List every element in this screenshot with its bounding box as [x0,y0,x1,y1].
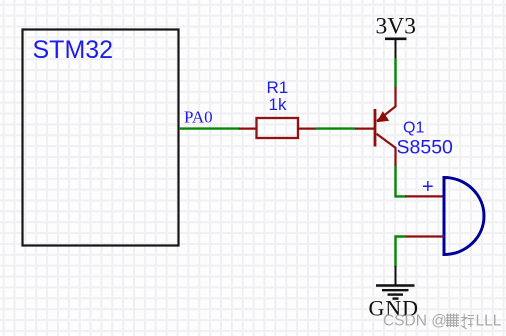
svg-text:S8550: S8550 [397,137,454,159]
component U1 STM32 box [23,30,179,246]
svg-text:1k: 1k [269,95,287,114]
watermark glyph xi [446,314,459,328]
transistor Q1 emitter arrow [377,111,390,122]
power port 3V3 stem [395,39,397,59]
svg-text:PA0: PA0 [184,108,213,127]
wire net collector [396,166,407,196]
transistor Q1 emitter pin [377,87,396,122]
svg-text:LLL: LLL [476,313,502,330]
svg-text:CSDN @: CSDN @ [383,313,447,330]
svg-text:Q1: Q1 [403,120,424,137]
buzzer LS1 body [444,178,484,255]
svg-text:3V3: 3V3 [376,14,416,40]
transistor Q1 base pin [355,128,375,130]
ground symbol bar 3 [388,293,404,295]
transistor Q1 collector pin [377,134,396,167]
ground symbol bar 2 [382,289,409,291]
buzzer LS1 positive pin [405,195,444,197]
resistor R1 body [257,118,299,138]
power port 3V3 bar [385,37,407,40]
ground symbol bar 1 [376,284,415,286]
wire net base [316,127,357,129]
svg-text:STM32: STM32 [33,36,114,64]
wire net gnd [396,237,407,268]
buzzer LS1 negative pin [405,235,444,237]
wire net PA0 [179,127,240,129]
resistor R1 pin 2 [298,128,317,130]
ground symbol bar 4 [393,297,399,299]
svg-text:+: + [422,176,434,198]
watermark glyph ning [461,314,474,330]
wire net 3V3 [394,58,396,87]
ground symbol stem [395,266,397,286]
resistor R1 pin 1 [239,128,257,130]
transistor Q1 base bar [374,109,377,147]
